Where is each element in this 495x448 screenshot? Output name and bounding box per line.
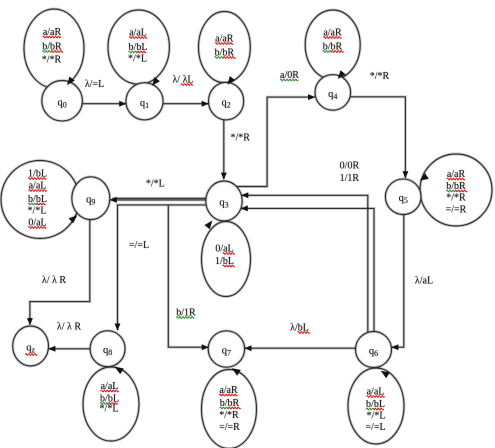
svg-text:0/aL: 0/aL xyxy=(215,244,233,255)
svg-text:*/*R: */*R xyxy=(219,410,239,421)
svg-text:=/=R: =/=R xyxy=(219,422,240,433)
svg-text:λ/ λ R: λ/ λ R xyxy=(57,322,81,333)
svg-text:*/*R: */*R xyxy=(230,133,250,144)
svg-text:=/=L: =/=L xyxy=(365,422,385,433)
svg-text:1/bL: 1/bL xyxy=(215,256,234,267)
svg-text:*/*L: */*L xyxy=(146,179,165,190)
svg-text:λ/ λ R: λ/ λ R xyxy=(42,275,66,286)
svg-text:=/=R: =/=R xyxy=(446,205,467,216)
svg-text:λ/aL: λ/aL xyxy=(415,276,433,287)
svg-text:*/*L: */*L xyxy=(100,404,119,415)
svg-text:1/1R: 1/1R xyxy=(340,173,360,184)
svg-text:λ/=L: λ/=L xyxy=(85,79,104,90)
svg-text:λ/bL: λ/bL xyxy=(290,323,309,334)
svg-text:*/*R: */*R xyxy=(42,55,62,66)
svg-text:*/*L: */*L xyxy=(367,411,386,422)
svg-text:*/*R: */*R xyxy=(370,71,390,82)
svg-text:*/*L: */*L xyxy=(28,206,47,217)
svg-text:*/*R: */*R xyxy=(446,193,466,204)
svg-text:0/0R: 0/0R xyxy=(340,161,360,172)
svg-text:*/*L: */*L xyxy=(128,54,147,65)
svg-text:=/=L: =/=L xyxy=(129,240,149,251)
